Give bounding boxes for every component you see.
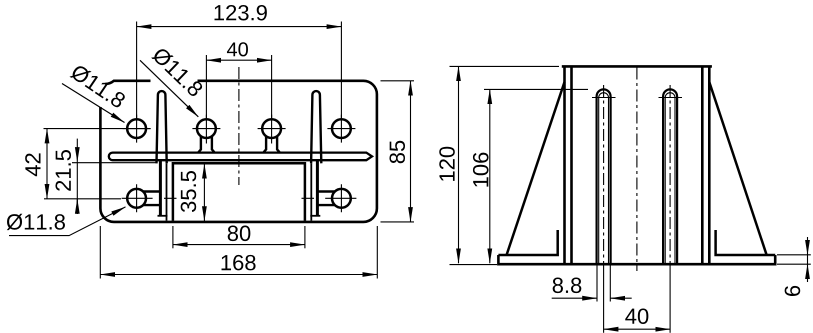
right fin below slot <box>316 160 319 216</box>
value label 80 <box>228 226 251 242</box>
hole H2 keyhole <box>197 119 216 138</box>
label D3 (diameter callout lower-left) <box>7 207 126 236</box>
dim 6 <box>777 237 811 282</box>
dim texts left view <box>25 5 405 270</box>
hole H6 bottom-right keyhole <box>332 189 351 208</box>
slot S2 outer <box>663 89 677 264</box>
vertical centerline of left view <box>238 67 240 185</box>
dim 120 <box>450 66 560 264</box>
right gusset hypotenuse <box>709 82 766 255</box>
left fin blade above slot <box>157 91 167 163</box>
value label 6 <box>785 286 801 296</box>
value label 120 <box>439 147 455 181</box>
hole H3 keyhole <box>262 119 281 138</box>
base plate <box>498 255 775 264</box>
label D1 (diameter callout upper-left) <box>62 63 127 122</box>
dim texts right view <box>439 147 800 324</box>
right fin blade above slot <box>311 91 321 163</box>
slot S1 inner <box>599 93 609 264</box>
label D2 (diameter callout to keyhole) <box>140 46 204 117</box>
column top edge <box>562 65 712 68</box>
left gusset foot <box>498 230 557 255</box>
dim 40 top <box>206 55 271 119</box>
dim 8.8 <box>552 265 632 302</box>
slot centerlines <box>603 85 605 265</box>
view centerline <box>636 68 638 272</box>
centermarks upper holes <box>123 115 356 144</box>
centermarks lower holes <box>122 184 357 212</box>
notch (inner rectangle 80 wide) <box>173 163 305 221</box>
value label 21.5 <box>55 150 71 191</box>
hole H4 top-right <box>332 119 351 138</box>
column outer walls <box>563 66 566 264</box>
value label 168 <box>222 255 256 271</box>
dim 168 <box>100 226 377 279</box>
value label 85 <box>389 141 405 164</box>
dim 106 <box>484 89 588 263</box>
rib slot (pill with pointed right end) <box>109 153 372 161</box>
dim 21.5 left <box>72 139 158 214</box>
hole H1 top-left <box>127 119 146 138</box>
value label 40 (top) <box>227 42 248 56</box>
value label 106 <box>473 153 489 187</box>
value label 40 (bottom) <box>625 308 648 324</box>
dim 80 <box>173 226 305 248</box>
plate outline <box>100 81 377 222</box>
value label 8.8 <box>553 278 582 294</box>
dim 35.5 <box>195 164 210 222</box>
dim 123.9 <box>137 22 342 120</box>
left fin below slot <box>159 160 162 216</box>
value label 42 <box>25 153 40 176</box>
slot crossmarks <box>592 97 682 99</box>
value label 35.5 <box>181 171 197 212</box>
dim 42 left <box>44 129 151 199</box>
dim 40 bottom <box>604 265 671 333</box>
slot S1 outer <box>597 89 611 264</box>
left gusset hypotenuse <box>507 82 565 255</box>
column inner walls <box>570 66 573 264</box>
dim 85 right <box>381 81 415 222</box>
hole H5 bottom-left keyhole <box>127 189 146 208</box>
slot S2 inner <box>665 93 675 264</box>
value label 123.9 <box>215 5 267 21</box>
right gusset foot <box>716 230 776 255</box>
